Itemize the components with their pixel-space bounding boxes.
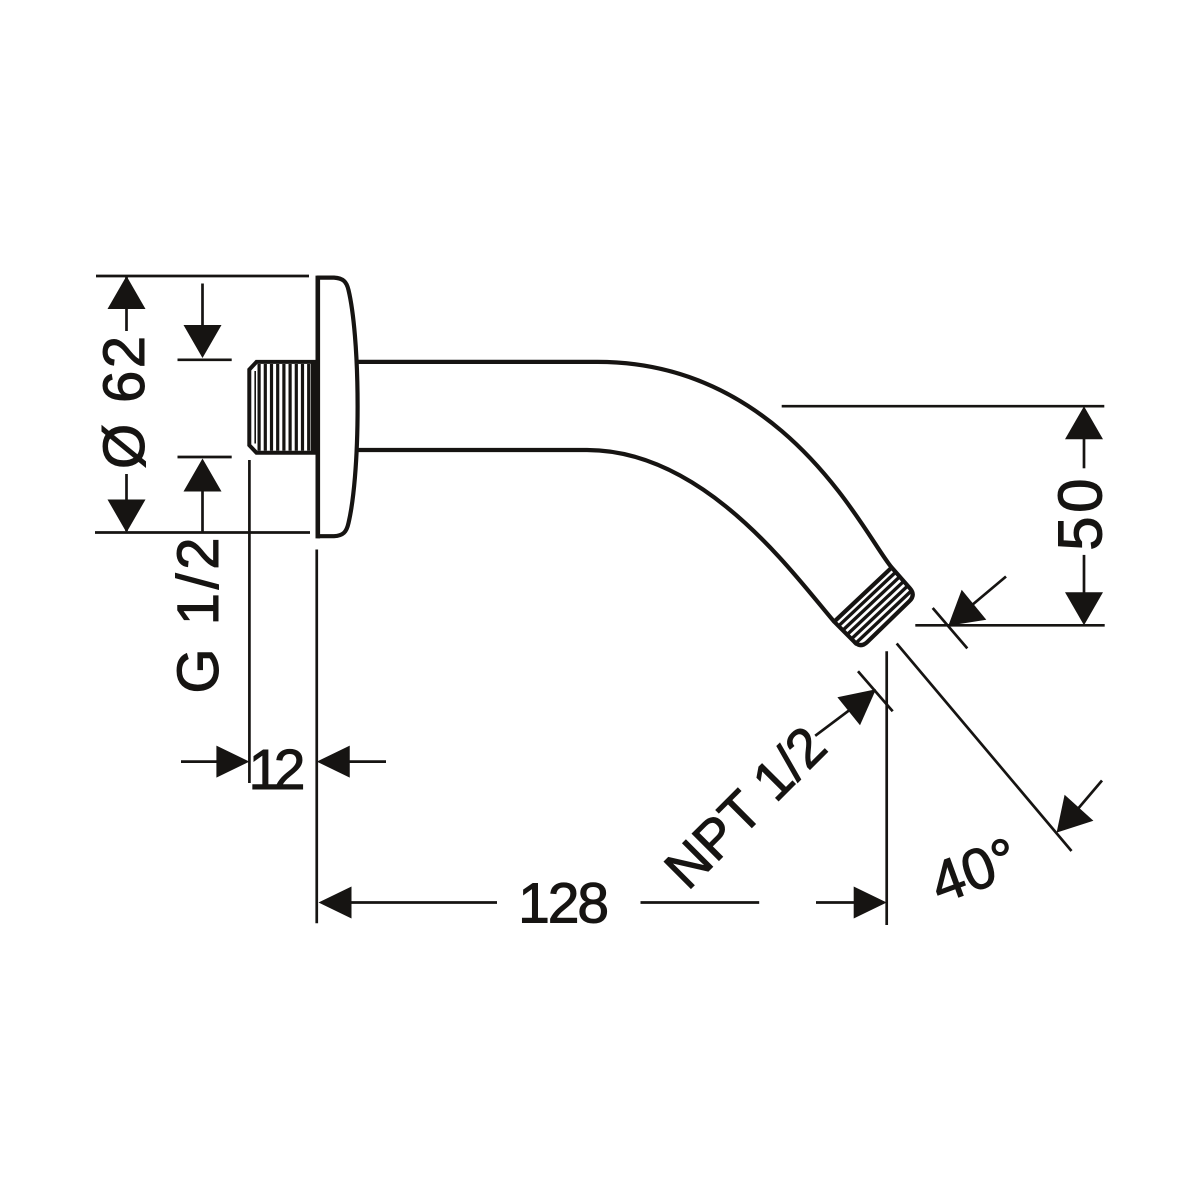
angle 40: lower arrow tail bbox=[1078, 781, 1102, 809]
wall thread base band bbox=[311, 362, 316, 453]
shower arm tube body bbox=[356, 362, 913, 645]
angle 40: upper arrow bbox=[948, 590, 986, 626]
dimension Ø62: bottom arrow bbox=[108, 500, 146, 533]
outlet axis diagonal line bbox=[897, 644, 1072, 852]
flange escutcheon bbox=[318, 278, 358, 537]
dimension Ø62: top extension line bbox=[96, 275, 309, 278]
dimension 12: right arrow tail bbox=[349, 760, 386, 763]
dimension 128: dim line segment 1 bbox=[350, 901, 497, 904]
dimension 128: dim line segment 3 bbox=[816, 901, 854, 904]
dimension 128: left arrow bbox=[319, 887, 352, 919]
dimension 50: bottom extension line bbox=[915, 624, 1104, 627]
angle 40: upper arrow tail bbox=[972, 577, 1006, 606]
dimension Ø62: dimension line bottom segment bbox=[125, 474, 128, 531]
outlet thread hatch bbox=[838, 572, 912, 645]
wall thread G 1/2 (hatched) bbox=[249, 362, 316, 453]
wall thread chamfer line bbox=[254, 371, 256, 444]
dimension Ø62: dimension line top segment bbox=[125, 277, 128, 331]
thread diameter G1/2: lower arrow line bbox=[201, 491, 204, 533]
NPT 1/2 leader line bbox=[815, 710, 850, 736]
thread diameter G1/2: upper arrow line bbox=[201, 284, 204, 328]
NPT 1/2 leader arrow bbox=[837, 689, 876, 725]
angle 40: lower arrow bbox=[1057, 795, 1094, 833]
dimension 12: right arrow bbox=[317, 746, 350, 778]
outlet thread band start line bbox=[834, 568, 892, 622]
outlet vertical extension line bbox=[885, 651, 888, 925]
dimension Ø62: top arrow bbox=[108, 276, 146, 309]
shared extension line (12 right / 128 left) bbox=[315, 550, 318, 924]
dimension 50: dim line bottom segment bbox=[1083, 555, 1086, 593]
dimension 50: top extension line bbox=[782, 405, 1105, 408]
dimension 50: dim line top segment bbox=[1083, 439, 1086, 468]
svg-text:12: 12 bbox=[249, 738, 306, 802]
thread diameter G1/2: upper arrow bbox=[184, 325, 222, 358]
dimension 50: bottom arrow bbox=[1065, 592, 1103, 625]
angle 40: tick on bottom extension line bbox=[933, 608, 968, 648]
dimension 128: right arrow bbox=[854, 887, 887, 919]
svg-text:128: 128 bbox=[518, 872, 609, 936]
dimension 50: top arrow bbox=[1065, 406, 1103, 439]
thread diameter G1/2: upper extension tick bbox=[178, 358, 232, 361]
dimension 12: left arrow bbox=[216, 746, 249, 778]
dimension Ø62: bottom extension line bbox=[95, 531, 310, 534]
dimension 12: left arrow tail bbox=[181, 760, 217, 763]
svg-text:Ø 62: Ø 62 bbox=[92, 336, 157, 469]
thread diameter G1/2: lower arrow bbox=[184, 459, 222, 492]
svg-text:G 1/2: G 1/2 bbox=[166, 538, 231, 694]
NPT 1/2 leader tick bbox=[858, 671, 893, 711]
dimension 128: dim line segment 2 bbox=[641, 901, 760, 904]
dimension 12: left extension line bbox=[248, 460, 251, 783]
flange wall face line bbox=[315, 276, 320, 539]
wall thread hatch bars bbox=[259, 364, 309, 451]
thread diameter G1/2: lower extension tick bbox=[178, 456, 232, 459]
